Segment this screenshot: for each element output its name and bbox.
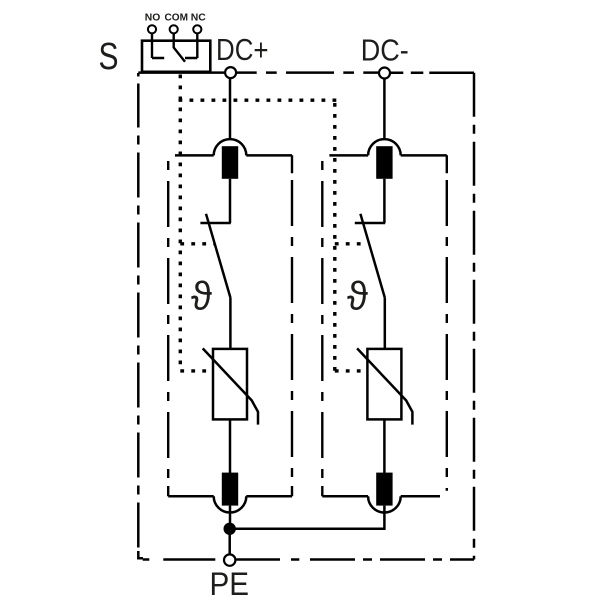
dotted linkage top horizontal	[179, 98, 337, 101]
svg-text:ϑ: ϑ	[191, 275, 212, 319]
disconnector element 2 (black)	[376, 146, 392, 179]
module 1 dashed right side	[291, 180, 293, 486]
wire DC+ down	[229, 78, 232, 140]
bottom disconnector arc 2	[368, 496, 401, 512]
terminal PE	[224, 554, 235, 565]
terminal NO	[148, 25, 156, 33]
outer border top dashed DC- to corner	[390, 72, 474, 75]
outer border left	[137, 73, 140, 551]
wire to varistor 1	[229, 298, 232, 349]
top wire across module 2	[329, 154, 446, 157]
wire below varistor 2	[383, 419, 386, 473]
svg-text:S: S	[99, 35, 119, 78]
junction node	[224, 523, 236, 535]
wire DC- down	[383, 79, 386, 141]
svg-text:NC: NC	[191, 13, 206, 24]
outer border bottom-left corner stub	[138, 551, 143, 558]
module 2 corner stubs	[322, 155, 447, 496]
terminal NC	[193, 25, 201, 33]
disconnector arc 2	[368, 139, 401, 155]
outer border top (solid run under S box)	[138, 71, 225, 74]
COM pole and blade	[174, 33, 185, 61]
wire below varistor 1	[229, 419, 232, 473]
disconnector arc 1	[214, 139, 247, 155]
svg-text:DC+: DC+	[216, 32, 269, 67]
switch 1 fixed contact	[200, 222, 230, 225]
bottom wire across module 2	[322, 495, 440, 498]
wire junction to PE	[228, 535, 231, 555]
bottom wire across module 1	[168, 495, 292, 498]
wire to varistor 2	[384, 298, 387, 349]
switch 1 blade	[206, 214, 230, 298]
varistor 1 body	[213, 349, 247, 420]
svg-text:ϑ: ϑ	[347, 275, 368, 319]
dotted stub to varistor 1	[180, 369, 211, 372]
NC contact leg	[185, 33, 197, 58]
varistor 1 diagonal	[203, 348, 258, 424]
module 1 dashed left side	[167, 161, 169, 486]
varistor 2 body	[367, 349, 401, 420]
outer border top dashed DC+ to DC-	[236, 71, 379, 74]
dotted stub to switch 1	[180, 242, 214, 245]
module 2 dashed right side	[446, 180, 448, 491]
dotted stub to switch 2	[335, 242, 364, 245]
svg-text:DC-: DC-	[361, 33, 409, 68]
disconnector element 1 (black)	[222, 146, 238, 179]
bottom disconnector arc 1	[214, 496, 247, 512]
wire to junction	[229, 506, 232, 529]
outer border bottom	[143, 558, 474, 561]
wire to switch 1	[229, 179, 232, 223]
bottom disconnector element 2 (black)	[376, 473, 392, 506]
wire branch 2 to junction	[230, 506, 385, 529]
varistor 2 diagonal	[357, 348, 412, 424]
NO contact leg	[152, 33, 164, 58]
terminal COM	[170, 25, 178, 33]
module 1 corner stubs	[168, 155, 292, 496]
wire to switch 2	[383, 179, 386, 223]
svg-text:PE: PE	[210, 566, 250, 600]
svg-text:NO: NO	[145, 13, 161, 24]
dotted stub to varistor 2	[335, 369, 363, 372]
switch 2 blade	[360, 214, 384, 298]
switch 2 fixed contact	[355, 222, 385, 225]
terminal DC-	[379, 68, 390, 79]
dotted linkage vertical right	[333, 103, 336, 371]
signalling contact box S	[142, 41, 210, 72]
terminal DC+	[225, 67, 236, 78]
dotted linkage vertical left	[179, 75, 182, 372]
top wire across module 1	[175, 154, 292, 157]
outer border right	[473, 73, 476, 560]
svg-text:COM: COM	[165, 13, 189, 24]
module 2 dashed left side	[321, 161, 323, 486]
bottom disconnector element 1 (black)	[222, 473, 238, 506]
